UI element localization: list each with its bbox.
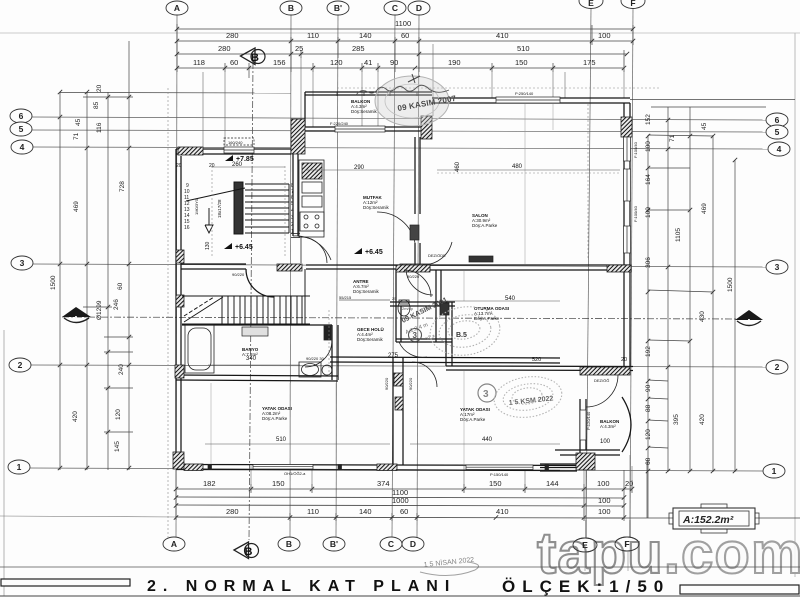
svg-text:B: B <box>251 52 259 64</box>
banyo top wall <box>182 324 332 326</box>
bubble 4 right <box>768 142 790 156</box>
left top connector <box>60 92 291 95</box>
block antre right <box>396 265 430 272</box>
svg-text:B.5: B.5 <box>456 332 467 339</box>
svg-text:71: 71 <box>73 132 80 140</box>
svg-text:510: 510 <box>276 437 287 443</box>
svg-text:C: C <box>388 539 394 549</box>
svg-text:190: 190 <box>448 58 461 67</box>
banyo bottom wall <box>176 375 338 376</box>
section marker B bottom <box>234 542 259 559</box>
top dim ticks row1 <box>176 24 178 72</box>
svg-text:P:250/140: P:250/140 <box>515 91 534 96</box>
top dim line row2 <box>177 53 627 55</box>
block F corner <box>621 117 632 137</box>
stair stringer <box>234 182 243 234</box>
svg-text:6: 6 <box>19 111 24 121</box>
top dim line row1 <box>177 40 633 42</box>
svg-text:1100: 1100 <box>395 19 411 28</box>
svg-text:4: 4 <box>291 208 294 214</box>
window kitchen top <box>335 126 385 132</box>
svg-text:156: 156 <box>273 58 286 67</box>
window right wall 1 <box>624 137 631 161</box>
grid row 3 <box>33 264 766 267</box>
stair lower flight treads <box>221 296 223 324</box>
grid row 6 <box>32 117 766 120</box>
svg-text:90: 90 <box>645 384 652 392</box>
bubble C bottom <box>380 537 402 551</box>
right exterior wall <box>623 103 625 371</box>
svg-text:45: 45 <box>75 118 82 126</box>
bubble D top <box>408 1 430 15</box>
svg-text:25: 25 <box>295 44 303 53</box>
grid col D <box>417 15 419 537</box>
bubble B' bottom <box>323 537 345 551</box>
banyo right wall <box>331 325 333 380</box>
grid col E <box>586 9 591 538</box>
right dim col c <box>689 107 691 472</box>
svg-text:F:100/40: F:100/40 <box>633 205 638 222</box>
svg-text:55/215: 55/215 <box>339 295 352 300</box>
svg-text:150: 150 <box>515 58 528 67</box>
svg-text:285: 285 <box>352 44 365 53</box>
bubble A bottom <box>163 537 185 551</box>
grid row 4 <box>33 147 768 149</box>
svg-text:Döş:A.Parke: Döş:A.Parke <box>472 223 498 228</box>
grid row 1 <box>30 468 763 471</box>
grid3 wall left <box>181 263 246 265</box>
svg-text:280: 280 <box>226 31 239 40</box>
wall pier 2 <box>338 465 342 470</box>
svg-text:F: F <box>630 0 635 8</box>
svg-text:1: 1 <box>291 229 294 235</box>
bottom line to A-box <box>584 517 800 519</box>
svg-text:3: 3 <box>483 389 489 400</box>
svg-text:Döş:A.Parke: Döş:A.Parke <box>460 417 486 422</box>
svg-text:120: 120 <box>330 58 343 67</box>
bubble E top <box>579 0 603 9</box>
svg-text:88: 88 <box>645 404 652 412</box>
svg-text:3: 3 <box>413 331 418 340</box>
svg-text:1500: 1500 <box>727 277 734 292</box>
svg-text:420: 420 <box>699 414 706 425</box>
section marker B top <box>241 48 266 65</box>
title right bar <box>680 585 799 594</box>
kitchen cabinet 1 <box>302 182 322 193</box>
balcony rail ticks <box>337 92 417 96</box>
bubble B bottom <box>278 537 300 551</box>
svg-text:140: 140 <box>359 507 372 516</box>
svg-text:3: 3 <box>291 215 294 221</box>
svg-text:F:100/40: F:100/40 <box>633 141 638 158</box>
window yatakL bottom <box>253 465 313 470</box>
center vertical wall <box>392 357 394 465</box>
balcony SE arc <box>622 397 631 452</box>
svg-text:B: B <box>286 539 292 549</box>
block left wall yatak <box>175 365 184 378</box>
svg-text:120: 120 <box>115 409 122 420</box>
svg-text:460: 460 <box>455 161 461 172</box>
bubble 6 right <box>766 113 788 127</box>
svg-text:4: 4 <box>20 142 25 152</box>
section marker A right <box>735 310 763 326</box>
door kitchen <box>377 212 415 243</box>
bubble 1 right <box>763 464 785 478</box>
svg-text:140: 140 <box>359 31 372 40</box>
window right wall 2 <box>624 169 631 201</box>
svg-text:P:150/140: P:150/140 <box>490 472 509 477</box>
grid col C <box>392 15 395 537</box>
svg-text:100: 100 <box>598 496 611 505</box>
door oturma-balkon <box>586 375 618 407</box>
svg-text:ÖLÇEK:1/50: ÖLÇEK:1/50 <box>502 577 670 596</box>
block left wall g3 <box>176 250 184 263</box>
gece holu bottom wall <box>330 357 560 358</box>
block left wall banyo <box>176 295 184 307</box>
svg-text:150: 150 <box>489 479 502 488</box>
svg-text:D: D <box>410 539 416 549</box>
section marker A left <box>62 307 91 323</box>
svg-text:2: 2 <box>291 222 294 228</box>
svg-text:DEZ/ÖDE: DEZ/ÖDE <box>428 253 446 258</box>
title bottom line <box>0 595 800 597</box>
svg-text:246: 246 <box>113 299 120 310</box>
wall pier 1 <box>208 465 212 470</box>
radiator kitchen <box>410 225 493 262</box>
svg-text:728: 728 <box>119 181 126 192</box>
block D corner <box>421 116 432 139</box>
paper edge right <box>794 33 796 577</box>
door salon <box>424 242 452 265</box>
door wc <box>399 342 427 357</box>
bubble 2 left <box>9 358 31 372</box>
door gece holu left <box>404 270 431 297</box>
stamp center <box>401 297 503 360</box>
svg-text:A: A <box>174 3 180 13</box>
svg-text:430: 430 <box>699 311 706 322</box>
small door/window labels <box>194 91 638 477</box>
svg-text:100: 100 <box>645 141 652 152</box>
svg-text:60: 60 <box>117 282 124 290</box>
svg-text:Döş:Seramik: Döş:Seramik <box>357 337 384 342</box>
svg-text:68: 68 <box>645 457 652 465</box>
top kitchen wall <box>305 126 421 128</box>
svg-text:60: 60 <box>230 58 238 67</box>
door main entry <box>301 237 327 263</box>
wc room right wall <box>445 302 447 342</box>
svg-text:90/220: 90/220 <box>384 377 389 390</box>
balcony rail top <box>305 91 432 93</box>
left dim col c <box>107 92 109 470</box>
svg-text:100: 100 <box>598 507 611 516</box>
grid row 2 <box>31 365 766 367</box>
svg-text:DEZ/ÖĞ: DEZ/ÖĞ <box>594 378 609 383</box>
eave dotted line <box>337 87 660 89</box>
block oturma SE <box>580 367 630 375</box>
svg-text:20: 20 <box>96 84 103 92</box>
svg-text:510: 510 <box>517 44 530 53</box>
top dim line row3 <box>177 67 624 69</box>
stamp top right <box>356 74 457 126</box>
banyo radiator <box>324 326 331 340</box>
svg-text:1000: 1000 <box>392 496 409 505</box>
grid row 5 <box>32 130 766 132</box>
svg-text:A:4.3m²: A:4.3m² <box>600 424 616 429</box>
window top-left <box>224 147 254 153</box>
oturma SE wall right part <box>580 366 630 368</box>
bubble 1 left <box>8 460 30 474</box>
right dim col b <box>667 107 669 472</box>
svg-text:+7.85: +7.85 <box>236 156 254 163</box>
svg-text:540: 540 <box>505 296 516 302</box>
bubble 4 left <box>11 140 33 154</box>
svg-text:100: 100 <box>600 439 611 445</box>
block B' top <box>291 119 305 154</box>
svg-text:144: 144 <box>546 479 559 488</box>
kitchen cabinet 2 <box>302 196 322 207</box>
left dim slash ticks <box>58 90 131 470</box>
washbasin <box>299 362 321 377</box>
stair diagonal cut lower <box>184 297 223 322</box>
svg-text:B: B <box>245 546 253 558</box>
svg-text:Döş:Seramik: Döş:Seramik <box>353 289 380 294</box>
bubble B' top <box>327 1 349 15</box>
svg-text:90/220: 90/220 <box>407 274 420 279</box>
antre / gece holu wall <box>390 301 455 303</box>
svg-text:280: 280 <box>218 44 231 53</box>
hatched wall blocks <box>173 116 632 471</box>
bubble F bottom <box>615 537 639 551</box>
svg-text:420: 420 <box>72 411 79 422</box>
bottom exterior wall yatak L <box>176 464 392 467</box>
grid col B <box>290 15 291 537</box>
block bottom mid <box>377 464 397 471</box>
svg-text:100: 100 <box>597 479 610 488</box>
bubble B top <box>280 1 302 15</box>
svg-text:C: C <box>392 3 398 13</box>
svg-text:E: E <box>588 0 594 8</box>
svg-text:1: 1 <box>17 462 22 472</box>
bottom dim line row3 <box>176 505 624 506</box>
svg-text:F:220/240: F:220/240 <box>330 121 349 126</box>
level +6.45 stair <box>224 243 232 249</box>
bubble D bottom <box>402 537 424 551</box>
svg-text:160/240: 160/240 <box>228 140 243 145</box>
svg-text:100: 100 <box>598 31 611 40</box>
bottom dim line row2 <box>176 497 624 498</box>
svg-text:5: 5 <box>775 127 780 137</box>
bubble A top <box>166 1 188 15</box>
svg-text:4: 4 <box>777 144 782 154</box>
svg-text:150: 150 <box>272 479 285 488</box>
svg-text:F: F <box>624 539 629 549</box>
level markers <box>224 155 383 256</box>
stair-kitchen divider <box>292 131 294 236</box>
salon bottom wall <box>420 264 630 266</box>
kitchen counter <box>299 160 324 237</box>
salon dim line 480 <box>205 167 620 444</box>
svg-text:A: A <box>746 317 752 326</box>
svg-text:60: 60 <box>401 31 409 40</box>
svg-text:Döş:A.Parke: Döş:A.Parke <box>262 416 288 421</box>
level +6.45 antre <box>354 248 362 254</box>
banyo bidet <box>322 365 332 375</box>
bubble E bottom over watermark <box>573 520 639 571</box>
svg-text:60: 60 <box>400 507 408 516</box>
svg-text:306: 306 <box>645 257 652 268</box>
svg-text:20: 20 <box>176 163 182 169</box>
balcony SE left wall <box>579 399 581 455</box>
dim slash ticks <box>174 27 635 520</box>
svg-text:1M0/3Y0: 1M0/3Y0 <box>194 198 199 215</box>
wc room left wall <box>395 269 397 342</box>
stamp lower right <box>478 372 564 421</box>
window niche dotted <box>224 138 254 145</box>
svg-text:90: 90 <box>390 58 398 67</box>
svg-text:240: 240 <box>118 364 125 375</box>
block salon bottom left <box>400 264 430 271</box>
bottom dim line row1 <box>176 488 632 490</box>
svg-text:B': B' <box>334 3 342 13</box>
window balcony left <box>580 410 586 440</box>
bubble 5 left <box>10 122 32 136</box>
svg-text:275: 275 <box>388 353 399 359</box>
block SW corner <box>173 452 184 469</box>
right dim slash ticks <box>646 118 737 473</box>
svg-text:D: D <box>416 3 422 13</box>
oturma - yatakR wall <box>446 365 633 368</box>
svg-text:1105: 1105 <box>675 228 682 242</box>
wall pier 3 <box>545 465 549 470</box>
window right wall 3 <box>624 226 631 253</box>
svg-text:110: 110 <box>307 31 319 40</box>
door balkon top kitchen <box>293 236 331 260</box>
paper edge left <box>3 330 5 596</box>
svg-text:192: 192 <box>645 346 652 357</box>
block stair SE <box>277 264 302 271</box>
banyo counter <box>242 327 268 336</box>
svg-text:3: 3 <box>20 258 25 268</box>
svg-text:+6.45: +6.45 <box>365 249 383 256</box>
wc door block <box>440 303 449 315</box>
svg-text:A: A <box>73 314 79 323</box>
svg-text:120: 120 <box>645 429 652 440</box>
interior extension lines <box>211 104 553 464</box>
svg-text:410: 410 <box>496 31 509 40</box>
bubble 3 right <box>766 260 788 274</box>
svg-text:25: 25 <box>392 296 397 301</box>
block bottom right <box>576 453 595 470</box>
bottom exterior wall yatak R <box>392 464 590 467</box>
bubble 5 right <box>766 125 788 139</box>
svg-text:B: B <box>288 3 294 13</box>
oturma left wall <box>435 270 437 342</box>
svg-text:469: 469 <box>701 203 708 214</box>
svg-text:410: 410 <box>496 507 509 516</box>
svg-text:2m/up: 2m/up <box>402 306 414 311</box>
left dim col d <box>128 41 130 470</box>
stair upper flight treads <box>245 183 289 185</box>
stair cut line <box>186 188 245 201</box>
left dim col b <box>86 92 88 470</box>
kitchen sink <box>302 163 322 179</box>
svg-text:145: 145 <box>114 441 121 452</box>
svg-text:5: 5 <box>291 201 294 207</box>
svg-text:90/220: 90/220 <box>232 272 245 277</box>
bottom dim line row4 <box>176 517 624 518</box>
svg-text:20: 20 <box>621 357 627 363</box>
svg-text:16: 16 <box>184 225 190 231</box>
bubble 2 right <box>766 360 788 374</box>
svg-text:E: E <box>582 540 588 550</box>
svg-text:440: 440 <box>482 437 493 443</box>
svg-text:374: 374 <box>377 479 390 488</box>
svg-text:1500: 1500 <box>50 275 57 290</box>
stair down arrow <box>205 208 213 233</box>
svg-text:175: 175 <box>583 58 596 67</box>
bathtub <box>185 325 214 373</box>
window salon top <box>496 97 560 103</box>
bubble 3 left <box>11 256 33 270</box>
extension lines below plan <box>251 455 632 538</box>
svg-text:2: 2 <box>775 362 780 372</box>
salon top wall <box>432 97 630 99</box>
svg-text:280: 280 <box>226 507 239 516</box>
bubble F top <box>621 0 645 9</box>
right connectors <box>630 99 795 101</box>
svg-text:A: A <box>171 539 177 549</box>
balcony SE bottom <box>555 449 620 451</box>
svg-text:340: 340 <box>246 356 257 362</box>
svg-text:45: 45 <box>701 122 708 130</box>
block salon bottom right <box>607 265 631 272</box>
left margin line y517 <box>0 516 176 517</box>
right dim col e <box>734 160 736 472</box>
svg-text:116: 116 <box>96 122 103 133</box>
block center wall <box>394 373 403 386</box>
svg-text:Döş:Seramik: Döş:Seramik <box>351 109 378 114</box>
section line B-B vertical dash-dot <box>249 62 253 540</box>
svg-text:469: 469 <box>73 201 80 212</box>
grid col A <box>176 15 177 537</box>
bubble C top <box>384 1 406 15</box>
toilet wc <box>398 300 410 316</box>
extension lines above plan <box>203 44 624 147</box>
svg-text:OH1/ÖĞ2-a: OH1/ÖĞ2-a <box>284 471 306 476</box>
svg-text:395: 395 <box>673 414 680 425</box>
svg-text:A:152.2m²: A:152.2m² <box>682 514 734 526</box>
svg-text:90/220 30: 90/220 30 <box>306 356 325 361</box>
svg-text:520: 520 <box>532 357 541 363</box>
svg-text:290: 290 <box>354 165 365 171</box>
salon dotted ceiling lines <box>168 88 620 540</box>
scan artifact line top <box>0 32 800 34</box>
interior dims <box>176 161 627 445</box>
bubble E bottom <box>573 538 597 552</box>
svg-text:6: 6 <box>775 115 780 125</box>
grid col B' <box>336 15 338 537</box>
svg-text:164: 164 <box>645 174 652 185</box>
svg-text:B': B' <box>330 539 338 549</box>
title top line <box>0 566 800 568</box>
bubble 6 left <box>10 109 32 123</box>
grid col F <box>630 9 633 538</box>
window yatakR bottom <box>466 465 533 470</box>
bottom dim ticks <box>175 470 177 520</box>
svg-text:3: 3 <box>775 262 780 272</box>
svg-text:85: 85 <box>93 101 100 109</box>
svg-text:152: 152 <box>645 114 652 125</box>
